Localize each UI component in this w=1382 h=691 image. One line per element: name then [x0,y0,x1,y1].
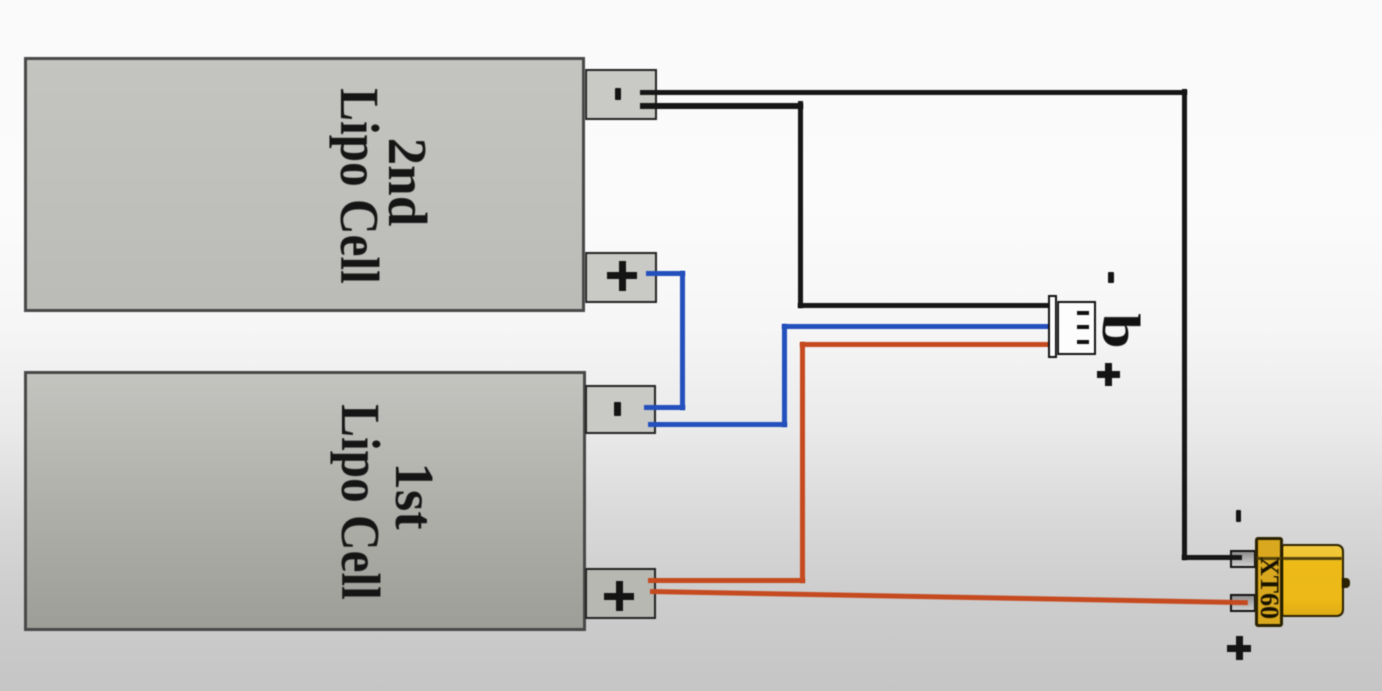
label minus on B1 negative tab [614,402,621,416]
wire black main negative: horizontal into XT60 upper tab [1182,555,1242,560]
label plus at balance connector [1097,371,1120,378]
battery B1 (1st Lipo Cell) [24,371,586,631]
wire black balance lead: vertical down [798,101,803,308]
balance connector pin 2 [1077,325,1089,329]
XT60 lower (positive) metal tab [1230,594,1256,612]
XT60 back body [1281,544,1344,617]
XT60 front plate [1255,537,1283,627]
wire blue balance lead: vertical up [782,324,787,428]
XT60 front plate seam [1257,557,1281,560]
balance connector collar [1048,295,1057,358]
label "1st" line [387,462,441,529]
tab B1 positive [585,568,656,619]
balance connector pin 1 [1077,311,1089,315]
label b at balance connector [1090,313,1152,348]
label plus at XT60 [1227,645,1251,652]
label XT60 on front plate [1254,557,1284,619]
XT60 right nub [1342,578,1350,588]
wire blue balance lead: horizontal from B1- tab [648,422,787,427]
wire blue series link: horizontal into B1- tab [644,405,685,410]
wire blue series link: horizontal from B2+ tab [646,271,685,276]
XT60 body seam line [1283,557,1342,560]
label minus on B2 negative tab [615,88,622,100]
XT60 upper (negative) metal tab [1230,550,1256,568]
label plus on B2 positive tab [607,272,637,279]
label minus at XT60 [1236,510,1241,522]
label "2nd" line [380,138,434,227]
label plus on B1 positive tab [604,593,634,600]
wire black main negative: horizontal from B2- tab to right [640,90,1187,96]
wire blue balance lead: horizontal into balance connector [782,324,1050,329]
tab B2 negative [585,69,657,120]
label minus at balance connector [1108,272,1114,283]
battery B2 (2nd Lipo Cell) [24,57,585,312]
wire red main positive: sloped line from B1+ tab to XT60 lower tab [650,589,1248,605]
tab B2 positive [585,252,657,303]
wire black balance lead: horizontal from B2- tab [640,103,803,109]
balance connector pin 3 [1077,340,1089,344]
label "Lipo Cell" line of B2 [332,88,386,284]
wire red balance lead: vertical up [800,342,805,583]
tab B1 negative [585,385,656,434]
wire red balance lead: horizontal from B1+ tab [648,578,805,583]
label "Lipo Cell" line of B1 [333,404,387,600]
balance connector body [1057,301,1096,355]
wire black main negative: vertical down to XT60 level [1182,89,1187,560]
wire blue series link: vertical down [680,271,685,410]
wire red balance lead: horizontal into balance connector [800,342,1050,347]
wire black balance lead: horizontal into balance connector [798,303,1051,308]
